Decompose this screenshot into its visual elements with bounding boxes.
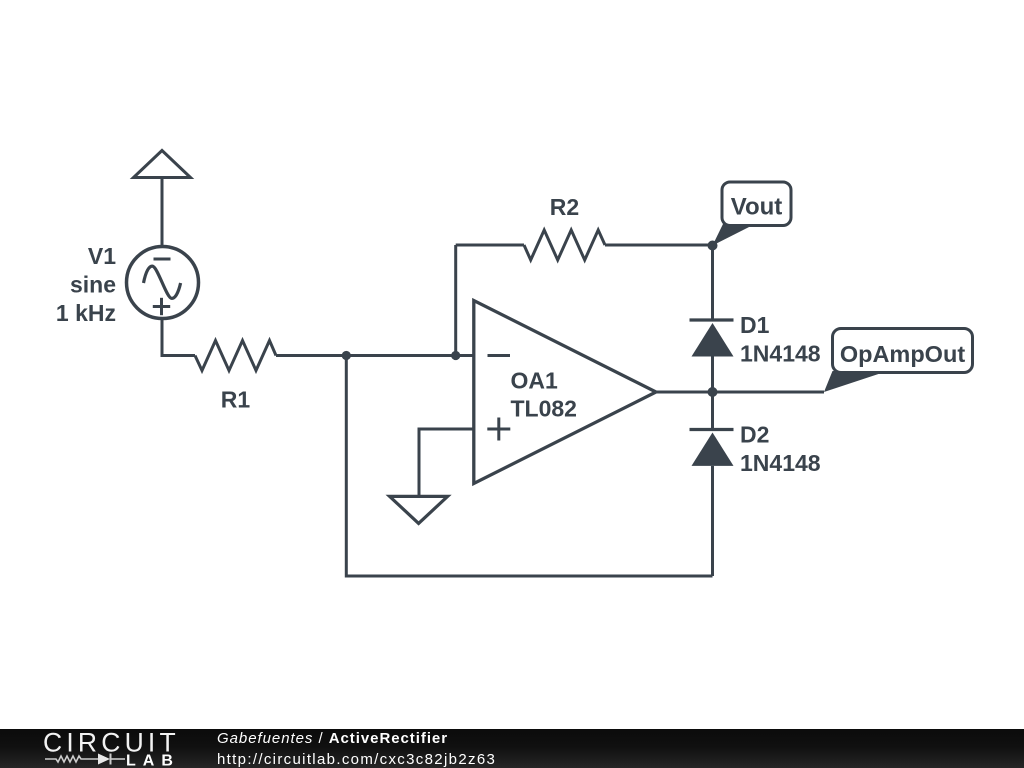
op-amp OA1: [474, 301, 656, 484]
svg-text:V1: V1: [88, 243, 116, 269]
wire op-amp noninverting input: [419, 429, 474, 495]
D2 labels: [740, 422, 821, 477]
node junction at feedback tap: [451, 351, 460, 360]
wire bottom feedback loop: [346, 356, 712, 577]
wire feedback vertical: [454, 245, 457, 356]
node junction at op-amp output: [708, 387, 718, 397]
footer url text: [217, 751, 496, 768]
wire R2 to Vout node: [605, 244, 713, 247]
svg-text:Vout: Vout: [731, 194, 783, 221]
wire op-amp output: [656, 391, 824, 394]
CircuitLab logo: [40, 729, 240, 768]
footer title text: [217, 730, 448, 747]
wire V1 bottom to R1: [162, 319, 195, 356]
wire feedback top to R2: [456, 244, 524, 247]
node junction at R1 output: [342, 351, 351, 360]
wire Vout node down to D1: [711, 246, 714, 321]
wire output node to D2: [711, 392, 714, 430]
wire D1 to output node: [711, 357, 714, 393]
svg-text:D1: D1: [740, 312, 770, 338]
svg-text:LAB: LAB: [126, 753, 180, 768]
diode D2: [690, 430, 734, 466]
footer watermark bar: [0, 729, 1024, 768]
svg-text:OpAmpOut: OpAmpOut: [840, 341, 965, 367]
wire R1 to op-amp inverting input: [276, 354, 474, 357]
svg-text:1N4148: 1N4148: [740, 450, 821, 476]
svg-text:OA1: OA1: [511, 368, 559, 394]
V1 value labels: [56, 243, 116, 326]
svg-text:sine: sine: [70, 272, 116, 298]
svg-text:1 kHz: 1 kHz: [56, 300, 116, 326]
resistor R2: [524, 230, 605, 260]
wire D2 bottom down: [711, 466, 714, 576]
ground: [390, 496, 448, 523]
diode D1: [690, 320, 734, 357]
svg-text:R1: R1: [221, 387, 251, 413]
voltage source V1: [127, 247, 199, 319]
D1 labels: [740, 312, 821, 367]
wire flag to V1 top: [161, 178, 164, 248]
svg-text:R2: R2: [550, 194, 579, 220]
svg-text:TL082: TL082: [511, 396, 577, 422]
node junction Vout: [708, 241, 718, 251]
net flag OpAmpOut: [824, 329, 973, 393]
svg-text:D2: D2: [740, 422, 769, 448]
net flag Vout: [713, 182, 792, 246]
svg-text:1N4148: 1N4148: [740, 341, 821, 367]
supply flag at top of V1: [134, 151, 191, 178]
OA1 labels: [511, 368, 577, 422]
resistor R1: [195, 341, 276, 371]
